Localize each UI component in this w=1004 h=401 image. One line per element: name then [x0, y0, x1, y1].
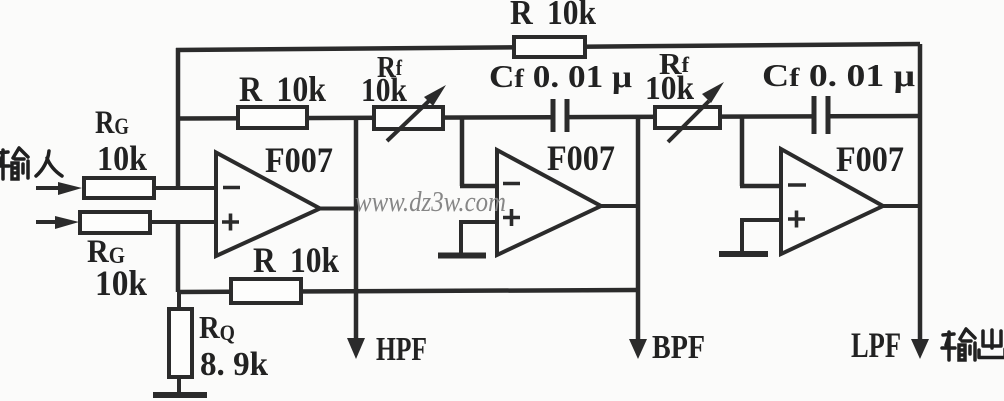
op-amp U2 F007: [497, 138, 615, 255]
svg-text:10k: 10k: [95, 263, 147, 303]
svg-text:BPF: BPF: [652, 329, 705, 366]
svg-text:10k: 10k: [361, 72, 407, 109]
label LPF: [851, 325, 901, 365]
capacitor Cf1: [553, 99, 567, 132]
resistor RG1: [84, 178, 154, 198]
wire left summing-node vertical: [176, 48, 181, 190]
wire op3 inverting input branch: [740, 117, 782, 186]
wire HPF vertical: [354, 118, 359, 348]
wire plus-node vertical: [176, 222, 181, 292]
resistor R bottom: [231, 279, 301, 303]
wire top feedback: [176, 44, 920, 50]
label BPF: [652, 329, 705, 366]
svg-text:www.dz3w.com: www.dz3w.com: [355, 187, 506, 218]
svg-text:F007: F007: [836, 139, 904, 179]
label Rf1: [361, 49, 407, 109]
resistor RQ: [169, 292, 192, 392]
arrow BPF output: [629, 339, 647, 359]
label Cf1: [489, 58, 632, 94]
svg-text:R 10k: R 10k: [510, 0, 596, 32]
ground op3: [719, 251, 768, 257]
svg-text:HPF: HPF: [376, 331, 427, 368]
svg-text:LPF: LPF: [851, 325, 901, 365]
wire bottom feedback: [178, 290, 638, 292]
label Cf2: [762, 57, 915, 93]
svg-text:F007: F007: [265, 140, 333, 180]
resistor RG2: [80, 212, 150, 233]
wire RG2 to op1 non-inverting input: [150, 220, 217, 224]
wire op2 non-inverting branch: [459, 222, 498, 253]
svg-text:8. 9k: 8. 9k: [200, 346, 268, 383]
input arrow 1: [36, 182, 82, 195]
label R second row: [239, 69, 326, 109]
wire BPF vertical: [636, 117, 641, 348]
svg-text:R 10k: R 10k: [239, 69, 326, 109]
svg-text:10k: 10k: [97, 139, 147, 178]
ground RQ: [153, 392, 207, 398]
wire second row: [178, 116, 920, 119]
label R bottom: [253, 240, 339, 280]
watermark: [355, 187, 506, 218]
op-amp U1 F007: [216, 140, 333, 256]
input arrow 2: [36, 216, 79, 229]
svg-text:10k: 10k: [645, 70, 694, 107]
ground op2: [438, 253, 486, 259]
label RQ: [199, 309, 268, 383]
wire op1 output: [318, 207, 358, 211]
svg-text:Cf 0. 01 μ: Cf 0. 01 μ: [762, 57, 915, 93]
resistor R second row: [238, 107, 307, 128]
label HPF: [376, 331, 427, 368]
arrow HPF output: [347, 338, 365, 359]
wire RG1 to op1 inverting input: [154, 186, 217, 190]
rheostat Rf1: [374, 85, 446, 141]
svg-text:R 10k: R 10k: [253, 240, 339, 280]
wire op3 non-inverting branch: [740, 220, 782, 252]
op-amp U3 F007: [781, 139, 904, 254]
label RG1: [95, 105, 147, 178]
label input 输入: [0, 148, 62, 179]
label output 输出: [942, 329, 1004, 360]
svg-text:F007: F007: [547, 138, 615, 178]
resistor R top: [514, 37, 585, 57]
wire op2 output: [599, 204, 640, 208]
rheostat Rf2: [655, 82, 724, 142]
label Rf2: [645, 46, 694, 107]
wire op2 inverting input branch: [460, 117, 498, 186]
capacitor Cf2: [814, 96, 828, 134]
wire op3 output: [881, 204, 922, 208]
label R top: [510, 0, 596, 32]
svg-text:Cf 0. 01 μ: Cf 0. 01 μ: [489, 58, 632, 94]
wire right LPF bus vertical: [918, 44, 923, 348]
arrow LPF output: [911, 339, 929, 359]
label RG2: [87, 234, 147, 303]
